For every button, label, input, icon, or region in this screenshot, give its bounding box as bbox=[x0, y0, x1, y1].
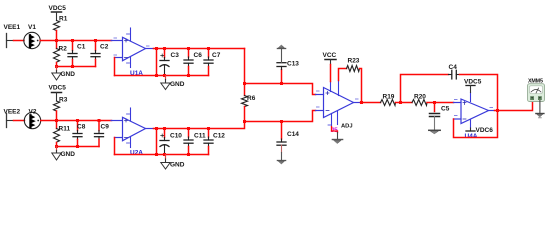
wire U3 output to R19 bbox=[361, 102, 381, 104]
source V1 bbox=[24, 24, 40, 49]
svg-text:C11: C11 bbox=[194, 133, 206, 140]
svg-text:VEE2: VEE2 bbox=[4, 109, 21, 116]
node junction C4 tap bbox=[399, 101, 402, 104]
svg-text:C14: C14 bbox=[287, 131, 299, 138]
capacitor C5 bbox=[430, 103, 450, 130]
instrument XMM5 bbox=[528, 79, 545, 102]
svg-text:R20: R20 bbox=[414, 94, 426, 101]
node junction R1/R2 bbox=[55, 39, 58, 42]
svg-text:C8: C8 bbox=[77, 124, 86, 131]
svg-text:R2: R2 bbox=[59, 46, 68, 53]
resistor R23 bbox=[339, 58, 362, 103]
svg-text:GND: GND bbox=[61, 151, 76, 158]
svg-text:R11: R11 bbox=[59, 126, 71, 133]
wire C4 loop left bbox=[401, 75, 449, 103]
wire cap ground rail row2 bbox=[115, 154, 209, 156]
resistor R20 bbox=[412, 94, 427, 106]
svg-text:VCC: VCC bbox=[323, 52, 337, 59]
wire bottom rail row2 bbox=[57, 146, 100, 148]
wire R19 to R20 bbox=[396, 102, 413, 104]
svg-text:GND: GND bbox=[170, 81, 185, 88]
capacitor C8 bbox=[73, 119, 86, 148]
svg-text:C13: C13 bbox=[287, 61, 299, 68]
svg-text:U4A: U4A bbox=[465, 133, 478, 140]
power VDC5 (U4A top) bbox=[464, 79, 482, 93]
capacitor C2 bbox=[91, 39, 109, 67]
op-amp U1A bbox=[111, 28, 154, 77]
svg-text:C9: C9 bbox=[101, 124, 110, 131]
power VDC5 (top row 1) bbox=[49, 5, 67, 21]
svg-text:VDC5: VDC5 bbox=[49, 85, 67, 92]
node junction output/feedback bbox=[155, 47, 158, 50]
svg-text:VDC6: VDC6 bbox=[476, 127, 494, 134]
op-amp U2A bbox=[111, 108, 154, 157]
capacitor C1 bbox=[68, 39, 86, 68]
ground under U3 bbox=[332, 127, 343, 144]
wire U1A output rail bbox=[154, 48, 245, 50]
wire R20 to U4A bbox=[427, 102, 454, 104]
wire VEE1 to V1 bbox=[14, 40, 25, 42]
svg-text:C1: C1 bbox=[77, 44, 86, 51]
svg-text:R3: R3 bbox=[59, 97, 68, 104]
capacitor C7 bbox=[204, 47, 221, 76]
node junction U3 output bbox=[360, 101, 363, 104]
wire V1 to node A bbox=[40, 40, 111, 42]
capacitor C6 bbox=[184, 47, 202, 77]
svg-text:GND: GND bbox=[170, 162, 185, 169]
capacitor C9 bbox=[95, 119, 110, 147]
svg-text:C12: C12 bbox=[213, 133, 225, 140]
resistor R11 bbox=[54, 121, 71, 147]
wire U4A output to XMM5 bbox=[495, 102, 533, 111]
ground below C14 bbox=[277, 161, 285, 164]
ground GND under C3 bbox=[161, 76, 185, 90]
power VDC6 (U4A bottom) bbox=[466, 127, 493, 134]
svg-text:R23: R23 bbox=[348, 58, 360, 65]
node junction C14 bbox=[280, 120, 283, 123]
wire cap ground rail row1 bbox=[115, 75, 209, 77]
wire bottom rail row1 bbox=[57, 66, 96, 68]
svg-text:GND: GND bbox=[61, 71, 76, 78]
node junction R3/R11 bbox=[55, 119, 58, 122]
wire to U3 +input bbox=[245, 84, 316, 95]
ground GND under C10 bbox=[161, 155, 185, 170]
svg-text:C4: C4 bbox=[449, 64, 458, 71]
svg-text:C6: C6 bbox=[194, 52, 203, 59]
wire V2 to node B bbox=[41, 120, 112, 122]
node VEE1 terminal bbox=[4, 24, 21, 48]
node junction U4A output bbox=[496, 109, 499, 112]
svg-text:C2: C2 bbox=[100, 44, 109, 51]
wire U2A output rail bbox=[154, 122, 245, 129]
resistor R19 bbox=[381, 94, 396, 106]
resistor R6 bbox=[242, 95, 256, 122]
svg-text:VEE1: VEE1 bbox=[4, 24, 21, 31]
wire U4A feedback loop bbox=[454, 111, 498, 138]
capacitor C3 polarized bbox=[160, 47, 179, 77]
node junction C5 tap bbox=[433, 101, 436, 104]
svg-text:V2: V2 bbox=[29, 109, 37, 116]
capacitor C11 bbox=[184, 127, 206, 156]
capacitor C10 polarized bbox=[160, 127, 182, 156]
capacitor C12 bbox=[204, 127, 225, 155]
resistor R3 bbox=[54, 97, 68, 121]
wire U1A feedback loop bbox=[115, 49, 157, 76]
svg-text:C7: C7 bbox=[212, 52, 221, 59]
ground GND row2 left bbox=[52, 145, 75, 160]
capacitor C13 bbox=[277, 49, 299, 84]
svg-text:V1: V1 bbox=[28, 24, 36, 31]
ground under C5 bbox=[429, 129, 440, 131]
node junction output/feedback row2 bbox=[155, 127, 158, 130]
resistor R2 bbox=[54, 41, 68, 67]
resistor R1 bbox=[54, 16, 68, 41]
wire to U3 -input bbox=[245, 111, 316, 122]
op-amp U3 bbox=[316, 81, 361, 135]
ground above C13 bbox=[277, 45, 285, 48]
svg-text:R6: R6 bbox=[247, 95, 256, 102]
svg-text:U2A: U2A bbox=[130, 150, 143, 157]
svg-text:R19: R19 bbox=[383, 94, 395, 101]
svg-text:C3: C3 bbox=[171, 52, 180, 59]
ground under XMM5 bbox=[536, 101, 544, 118]
capacitor C4 bbox=[449, 64, 460, 79]
capacitor C14 bbox=[277, 122, 299, 161]
wire C4 loop right bbox=[460, 75, 498, 111]
svg-text:VDC5: VDC5 bbox=[49, 5, 67, 12]
wire VEE2 to V2 bbox=[14, 120, 25, 122]
node junction R6 top bbox=[243, 82, 246, 85]
svg-text:ADJ: ADJ bbox=[341, 124, 353, 130]
svg-text:C5: C5 bbox=[441, 106, 450, 113]
op-amp U4A bbox=[454, 93, 495, 141]
node junction C13 bbox=[280, 82, 283, 85]
wire output rail row1 corner down bbox=[244, 49, 246, 96]
wire U2A feedback loop bbox=[115, 129, 157, 155]
power VDC5 (top row 2) bbox=[49, 85, 67, 102]
svg-text:R1: R1 bbox=[59, 16, 68, 23]
svg-text:VDC5: VDC5 bbox=[464, 79, 482, 86]
source V2 bbox=[24, 109, 40, 129]
node junction R6 bottom bbox=[243, 120, 246, 123]
node VEE2 terminal bbox=[4, 109, 21, 128]
ground GND row1 left bbox=[52, 65, 75, 80]
power VCC bbox=[323, 52, 337, 82]
svg-text:C10: C10 bbox=[170, 133, 182, 140]
